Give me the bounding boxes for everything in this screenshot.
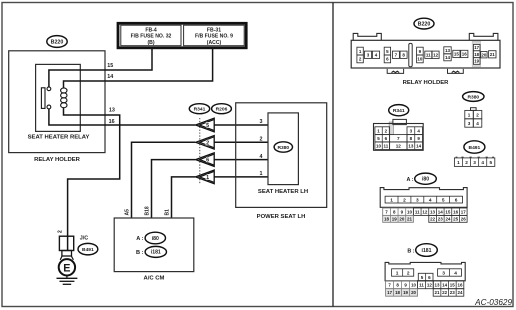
ground E circle — [59, 259, 75, 275]
svg-text:FB-31: FB-31 — [207, 27, 221, 33]
svg-text:B :: B : — [136, 250, 144, 256]
B220 pins 17,18,19 column — [472, 41, 480, 67]
svg-text:19: 19 — [403, 290, 408, 295]
fuse FB-4 cell — [121, 25, 181, 46]
svg-text:2: 2 — [403, 197, 406, 203]
svg-text:14: 14 — [445, 55, 451, 60]
i80 connector shell — [380, 188, 467, 208]
svg-text:14: 14 — [442, 282, 448, 287]
i181 pins 1,2 — [392, 269, 414, 277]
R341 pins 13,14 — [407, 142, 423, 150]
relay holder connector B220 shell — [351, 33, 500, 68]
svg-text:25: 25 — [453, 217, 459, 222]
svg-text:R380: R380 — [277, 145, 289, 151]
svg-text:21: 21 — [435, 290, 441, 295]
connector label i80 (A/C CM) — [145, 232, 165, 244]
connector label R380 (left) — [274, 142, 292, 152]
connector label B220 (left) — [47, 36, 67, 48]
svg-text:14: 14 — [416, 143, 422, 148]
svg-text:15: 15 — [454, 52, 460, 57]
ground symbol — [57, 276, 78, 285]
svg-text:7: 7 — [397, 136, 400, 141]
svg-text:11: 11 — [415, 209, 420, 214]
fuse FB-31 cell — [184, 25, 245, 46]
R380 connector pins 1,2 — [465, 110, 482, 118]
B220 pins 7,8 — [392, 51, 407, 58]
R341 pin 7 — [390, 135, 407, 142]
svg-text:B220: B220 — [418, 22, 431, 28]
inline connector arrow pin 2 — [196, 136, 215, 150]
svg-text:(ACC): (ACC) — [207, 40, 222, 46]
panel divider — [332, 3, 334, 307]
B220 pins 20,21 — [481, 51, 496, 58]
connector label B220 (right) — [414, 18, 434, 29]
i181 pins 7-10 — [386, 281, 418, 289]
svg-text:RELAY HOLDER: RELAY HOLDER — [403, 80, 450, 86]
svg-text:R380: R380 — [467, 94, 479, 100]
i181 connector shell — [385, 262, 465, 280]
inline connector arrow pin 6 — [196, 153, 215, 167]
svg-text:13: 13 — [109, 108, 115, 114]
svg-text:24: 24 — [445, 217, 451, 222]
connector label B491 (right) — [464, 141, 485, 153]
fuse FB-4 labels — [131, 27, 172, 45]
seat heater relay box — [36, 64, 81, 131]
R380 connector pins 3,4 — [465, 119, 482, 127]
svg-text:3: 3 — [468, 121, 471, 126]
svg-text:1: 1 — [468, 112, 471, 117]
svg-text:i80: i80 — [422, 177, 429, 183]
svg-text:19: 19 — [474, 59, 479, 64]
R341 pins 1,2 — [375, 127, 390, 135]
svg-text:15: 15 — [450, 282, 456, 287]
svg-text:21: 21 — [407, 217, 413, 222]
B220 pins 13,14 — [444, 47, 451, 61]
svg-text:POWER SEAT LH: POWER SEAT LH — [257, 214, 306, 220]
svg-text:1: 1 — [396, 270, 399, 276]
connector label i181 (A/C CM) — [145, 246, 166, 257]
svg-text:E: E — [63, 262, 70, 274]
svg-text:23: 23 — [450, 290, 456, 295]
svg-text:1: 1 — [457, 160, 460, 165]
connector label R380 (right) — [463, 92, 484, 102]
svg-text:A :: A : — [136, 236, 143, 242]
svg-text:SEAT HEATER LH: SEAT HEATER LH — [258, 189, 308, 195]
B220 pins 9,10 — [417, 47, 424, 63]
R341 pin 12 — [390, 142, 407, 150]
relay contact terminal top — [47, 87, 51, 91]
svg-text:FB-4: FB-4 — [145, 27, 156, 33]
i80 pins 18-21 row — [383, 215, 414, 222]
svg-text:F/B FUSE NO. 9: F/B FUSE NO. 9 — [195, 34, 233, 40]
svg-text:19: 19 — [392, 217, 398, 222]
svg-text:B1: B1 — [164, 209, 170, 216]
svg-text:1: 1 — [260, 171, 263, 177]
svg-text:2: 2 — [465, 160, 468, 165]
i181 pins 21-24 — [433, 289, 464, 297]
svg-text:R341: R341 — [194, 106, 206, 112]
svg-text:18: 18 — [474, 52, 479, 57]
relay coil L1 — [61, 88, 67, 108]
wire arrow6 to seat heater pin4 — [214, 159, 268, 161]
svg-text:RELAY HOLDER: RELAY HOLDER — [34, 157, 81, 163]
B220 mounting notch left — [387, 69, 403, 74]
connector label B491 (left) — [78, 243, 98, 255]
svg-text:13: 13 — [430, 209, 436, 214]
R341 pins 5,6 — [375, 135, 390, 142]
svg-text:A/C CM: A/C CM — [144, 275, 165, 281]
R341 pins 10,11 — [375, 142, 390, 150]
junction connector J/C body — [59, 236, 73, 260]
wire arrow1 to seat heater pin1 — [214, 176, 268, 178]
svg-text:24: 24 — [457, 290, 463, 295]
i80 pins 22-26 row — [429, 215, 467, 222]
wire arrow1 to A/C CM B1 — [172, 177, 196, 218]
R380 connector key tab — [471, 108, 477, 111]
svg-text:3: 3 — [442, 270, 445, 276]
svg-text:1: 1 — [206, 175, 209, 181]
svg-text:17: 17 — [461, 209, 467, 214]
svg-text:12: 12 — [433, 52, 439, 57]
wire arrow5 to seat heater pin3 — [214, 124, 268, 126]
svg-text:2: 2 — [407, 270, 410, 276]
svg-text:B491: B491 — [469, 145, 481, 151]
relay switch contact bar — [41, 88, 45, 109]
connector label i80 (right) — [415, 173, 437, 184]
R341 connector shell — [374, 119, 424, 150]
svg-text:R206: R206 — [216, 106, 228, 112]
svg-text:i181: i181 — [151, 250, 161, 256]
A/C CM box — [114, 218, 194, 272]
B220 pins 15,16 — [453, 50, 468, 57]
i80 pins 11-17 row — [413, 208, 467, 215]
wire arrow6 to A/C CM B18 — [152, 160, 196, 218]
A/C CM connector A ref — [136, 236, 143, 242]
svg-text:A5: A5 — [124, 209, 130, 216]
svg-text:6: 6 — [455, 197, 458, 203]
wire pin13 coil to ground J/C — [64, 107, 120, 250]
inline connector arrow pin 1 — [196, 170, 215, 184]
i181 pins 11,12 — [418, 281, 434, 289]
wire pin15 relay to fuse FB-4 — [49, 49, 152, 87]
svg-text:13: 13 — [445, 48, 451, 53]
i181 pins 17-20 — [386, 289, 418, 297]
svg-text:i181: i181 — [422, 248, 432, 254]
svg-text:17: 17 — [387, 290, 392, 295]
svg-text:11: 11 — [426, 52, 431, 57]
svg-text:1: 1 — [390, 197, 393, 203]
svg-text:3: 3 — [260, 119, 263, 125]
wire pin14 coil to fuse FB-31 — [64, 49, 213, 89]
svg-text:15: 15 — [107, 63, 113, 69]
svg-text:18: 18 — [384, 217, 390, 222]
wire arrow2 to seat heater pin2 — [214, 141, 268, 143]
svg-text:22: 22 — [430, 217, 436, 222]
B220 pins 1,2 — [357, 47, 363, 63]
svg-text:26: 26 — [461, 217, 467, 222]
svg-text:2: 2 — [260, 137, 263, 143]
svg-text:10: 10 — [376, 143, 382, 148]
svg-text:F/B FUSE NO. 32: F/B FUSE NO. 32 — [131, 34, 172, 40]
svg-text:14: 14 — [438, 209, 444, 214]
svg-text:13: 13 — [435, 282, 441, 287]
svg-text:4: 4 — [476, 121, 479, 126]
connector boundary dashed line — [199, 118, 201, 184]
svg-text:20: 20 — [481, 52, 487, 57]
fuse FB-31 labels — [195, 27, 233, 45]
R341 pins 3,4 — [407, 127, 423, 135]
svg-text:10: 10 — [407, 209, 413, 214]
wire pin16 relay switch to connector arrow 5 — [49, 109, 195, 125]
connector label R341 (left) — [189, 104, 209, 114]
svg-text:11: 11 — [384, 143, 389, 148]
svg-text:16: 16 — [457, 282, 463, 287]
svg-text:13: 13 — [408, 143, 414, 148]
wire arrow2 to A/C CM A5 — [132, 142, 196, 218]
B491 connector pins 1-5 — [456, 157, 494, 158]
svg-text:AC-03629: AC-03629 — [474, 298, 512, 307]
i181 pins 5,6 — [418, 273, 433, 281]
B220 pins 5,6 — [384, 47, 390, 63]
svg-text:B220: B220 — [51, 39, 64, 45]
svg-text:22: 22 — [442, 290, 448, 295]
B220 pins 11,12 — [425, 51, 439, 58]
svg-text:3: 3 — [473, 160, 476, 165]
connector label i181 (right) — [416, 244, 438, 257]
svg-text:10: 10 — [411, 282, 416, 287]
svg-text:23: 23 — [438, 217, 444, 222]
inline connector arrow pin 5 — [196, 118, 215, 132]
A/C CM connector B ref — [136, 250, 144, 256]
i80 pins 1-6 row — [385, 196, 462, 203]
svg-text:6: 6 — [206, 158, 209, 164]
svg-text:4: 4 — [454, 270, 457, 276]
i181 pins 13-16 — [433, 281, 464, 289]
relay holder box — [9, 51, 105, 153]
svg-text:18: 18 — [395, 290, 400, 295]
svg-text:A :: A : — [407, 177, 414, 183]
relay contact terminal bottom — [47, 105, 51, 109]
svg-text:(B): (B) — [147, 40, 154, 46]
seat heater LH box — [268, 113, 298, 185]
svg-text:16: 16 — [462, 52, 468, 57]
svg-text:16: 16 — [453, 209, 459, 214]
svg-text:R341: R341 — [393, 108, 405, 114]
svg-text:14: 14 — [107, 74, 113, 80]
connector label R205 (left) — [212, 104, 232, 114]
svg-text:J/C: J/C — [80, 236, 88, 242]
svg-text:17: 17 — [474, 45, 479, 50]
svg-text:12: 12 — [422, 209, 428, 214]
svg-text:3: 3 — [416, 197, 419, 203]
i80 pins 7-10 row — [383, 208, 414, 215]
B220 pins 3,4 — [364, 51, 379, 58]
svg-text:B491: B491 — [82, 247, 94, 253]
svg-text:SEAT HEATER RELAY: SEAT HEATER RELAY — [28, 135, 90, 141]
svg-text:12: 12 — [396, 143, 402, 148]
connector label R341 (right) — [389, 105, 409, 116]
svg-text:12: 12 — [427, 282, 433, 287]
svg-text:2: 2 — [58, 230, 64, 233]
svg-text:16: 16 — [109, 119, 115, 125]
svg-text:B18: B18 — [144, 206, 150, 215]
svg-text:21: 21 — [490, 52, 496, 57]
power seat LH box — [236, 103, 327, 208]
svg-text:5: 5 — [206, 123, 209, 129]
svg-text:B :: B : — [407, 249, 414, 255]
fuse box outer — [118, 23, 246, 48]
svg-text:i80: i80 — [152, 236, 159, 242]
svg-text:20: 20 — [411, 290, 416, 295]
svg-text:5: 5 — [489, 160, 492, 165]
svg-text:5: 5 — [442, 197, 445, 203]
svg-text:4: 4 — [260, 154, 263, 160]
B220 key divider — [409, 43, 412, 66]
svg-text:20: 20 — [399, 217, 405, 222]
svg-text:2: 2 — [476, 112, 479, 117]
svg-text:4: 4 — [481, 160, 484, 165]
svg-text:4: 4 — [429, 197, 432, 203]
svg-text:15: 15 — [445, 209, 451, 214]
svg-text:2: 2 — [206, 140, 209, 146]
i181 pins 3,4 — [438, 269, 462, 277]
svg-text:11: 11 — [419, 282, 424, 287]
svg-text:10: 10 — [417, 57, 423, 62]
R341 pins 8,9 — [407, 135, 423, 142]
B220 mounting notch right — [448, 69, 464, 74]
